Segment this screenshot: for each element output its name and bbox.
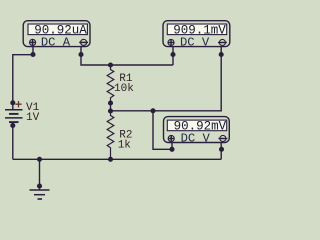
junction: voltmeter U2 right terminal [219,52,224,57]
wire: voltmeter U2 right pin stub [220,47,222,55]
wire: node B rail to voltmeter U2 right side [111,55,222,111]
wire: ammeter left terminal to left rail down to battery top [13,55,33,103]
label V1 value 1V [26,112,40,124]
label R2 [119,130,132,142]
junction: voltmeter U3 right terminal [219,147,224,152]
voltmeter U2 minus terminal symbol [218,39,227,45]
junction: R1 bottom node [108,100,113,105]
voltmeter U3 body [164,117,230,143]
junction: ammeter left terminal [30,52,35,57]
junction: voltmeter U3 left terminal [169,147,174,152]
junction: R1 top node on top rail [108,62,113,67]
junction: battery bottom node [10,123,15,128]
wire: voltmeter U2 left terminal to top rail [172,55,174,66]
label V1 [26,102,40,114]
wire: ammeter right pin stub [80,46,82,55]
junction: ground symbol node [37,183,42,188]
voltmeter U2 mode label DC V [180,35,210,49]
ammeter U1 body [23,21,90,47]
svg-text:1k: 1k [118,140,132,152]
svg-text:10k: 10k [114,83,134,95]
wire: ground branch [39,159,41,186]
ammeter U1 minus terminal symbol [79,39,88,45]
svg-text:DC V: DC V [180,35,210,49]
battery V1 symbol [5,101,23,126]
voltmeter U2 plus terminal symbol [168,39,174,45]
junction: branch to voltmeter U3 left terminal [150,108,155,113]
junction: ammeter right terminal [78,52,83,57]
ammeter U1 reading 90.92uA [34,23,87,37]
label R1 value 10k [114,83,134,95]
junction: ground branch on bottom rail [37,157,42,162]
ground symbol [30,186,50,199]
junction: voltmeter U2 left terminal [170,52,175,57]
wire: voltmeter U3 left pin stub [171,143,173,149]
voltmeter U3 plus terminal symbol [168,135,174,141]
wire: ammeter left pin stub [32,46,34,55]
wire: branch down to voltmeter U3 left terminal [153,111,172,150]
ammeter U1 plus terminal symbol [30,39,36,45]
wire: left rail battery bottom to bottom rail [12,126,14,160]
label R2 value 1k [118,140,132,152]
junction: battery top node [10,100,15,105]
voltmeter U3 minus terminal symbol [219,135,228,141]
svg-text:DC A: DC A [41,35,71,49]
wire: voltmeter U3 right terminal down to bottom rail [220,149,222,159]
junction: R2 top node [108,108,113,113]
ammeter U1 mode label DC A [41,35,71,49]
wire: voltmeter U2 left pin stub [172,47,174,55]
voltmeter U3 mode label DC V [181,131,211,145]
wire: node B short link R1 bottom to R2 top [110,103,112,111]
svg-text:1V: 1V [26,112,40,124]
wire: bottom rail (ground net) [13,158,221,160]
wire: ammeter right terminal down and right to top rail [81,55,173,66]
label R1 [119,73,133,85]
voltmeter U2 body [163,21,230,47]
junction: R2 bottom node on bottom rail [108,157,113,162]
svg-text:DC V: DC V [181,131,211,145]
voltmeter U2 reading 909.1mV [173,23,226,37]
resistor R1 [107,65,114,103]
wire: voltmeter U3 right pin stub [220,143,222,149]
voltmeter U3 reading 90.92mV [174,119,227,133]
resistor R2 [107,111,114,159]
